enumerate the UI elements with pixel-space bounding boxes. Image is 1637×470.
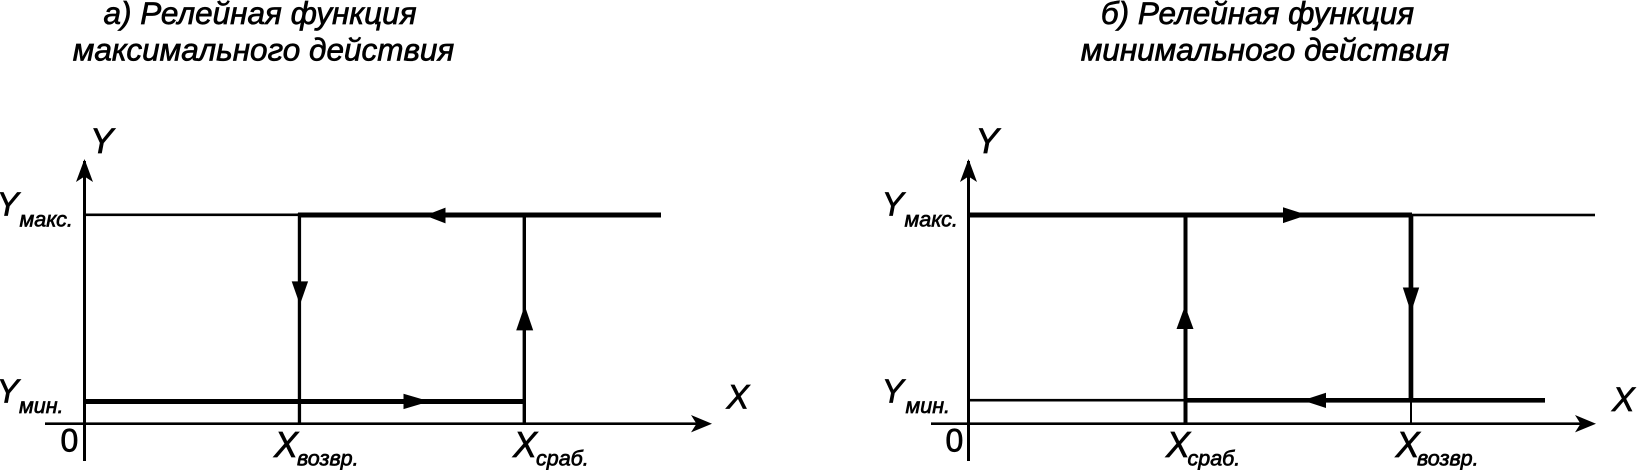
Ymax line thin segment (b) — [1412, 214, 1595, 217]
svg-text:возвр.: возвр. — [297, 447, 359, 470]
svg-text:сраб.: сраб. — [536, 447, 589, 470]
Ymax line thick segment (b) — [968, 213, 1412, 218]
right arrow on Ymin line (a) — [404, 394, 430, 409]
Y axis arrowhead (a) — [76, 159, 93, 182]
Ymin line thin segment (b) — [968, 399, 1185, 402]
svg-text:б) Релейная функция: б) Релейная функция — [1101, 0, 1414, 31]
Ymin line thick (a) — [84, 399, 525, 404]
X operate vertical (b) — [1184, 213, 1188, 425]
X operate vertical (a) — [523, 213, 526, 425]
X return vertical (a) — [298, 213, 301, 425]
left arrow on Ymax line (a) — [425, 208, 446, 224]
X axis arrowhead (b) — [1575, 415, 1596, 432]
svg-text:мин.: мин. — [906, 394, 951, 418]
svg-text:сраб.: сраб. — [1188, 447, 1241, 470]
svg-text:X: X — [273, 424, 300, 465]
down arrow on X return vertical (b) — [1403, 288, 1419, 313]
up arrow on X operate vertical (b) — [1177, 306, 1194, 329]
svg-text:0: 0 — [61, 423, 79, 459]
X axis arrowhead (a) — [691, 415, 712, 432]
right arrow on Ymax line (b) — [1283, 207, 1307, 223]
svg-text:X: X — [512, 424, 539, 465]
svg-text:минимального действия: минимального действия — [1081, 32, 1450, 68]
svg-text:Y: Y — [882, 372, 906, 409]
svg-text:возвр.: возвр. — [1417, 447, 1479, 470]
svg-text:X: X — [726, 379, 751, 417]
svg-text:максимального действия: максимального действия — [73, 32, 455, 68]
svg-text:мин.: мин. — [19, 394, 64, 418]
down arrow on X return vertical (a) — [292, 281, 308, 304]
svg-text:0: 0 — [946, 423, 964, 459]
Ymin line thick segment (b) — [1185, 398, 1545, 403]
X return vertical thin tail (b) — [1410, 401, 1412, 425]
Ymax line thin segment (a) — [84, 214, 300, 217]
svg-text:Y: Y — [976, 122, 1002, 161]
up arrow on X operate vertical (a) — [516, 306, 533, 331]
svg-text:Y: Y — [90, 122, 116, 161]
svg-text:X: X — [1611, 381, 1636, 419]
X return vertical thick (b) — [1409, 215, 1414, 401]
Y axis arrowhead (b) — [960, 159, 977, 182]
svg-text:Y: Y — [0, 185, 21, 222]
svg-text:а) Релейная функция: а) Релейная функция — [103, 0, 416, 31]
X axis (a) — [45, 422, 700, 425]
svg-text:Y: Y — [882, 185, 906, 222]
svg-text:Y: Y — [0, 372, 21, 409]
Y axis (a) — [83, 161, 86, 461]
Ymax line thick segment (a) — [298, 213, 661, 218]
left arrow on Ymin line (b) — [1303, 393, 1326, 408]
svg-text:макс.: макс. — [905, 208, 958, 232]
Y axis (b) — [967, 161, 970, 461]
svg-text:макс.: макс. — [20, 208, 73, 232]
X axis (b) — [931, 422, 1583, 425]
